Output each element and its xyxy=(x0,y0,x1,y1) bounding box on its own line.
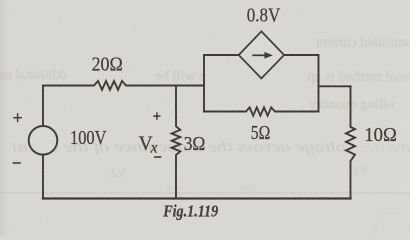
wire: loop top-left segment xyxy=(204,54,239,56)
wire: bottom horizontal xyxy=(43,197,351,199)
wire: loop bottom with resistor R3 (5 ohm) xyxy=(204,107,319,115)
resistor R4 (10 ohm) vertical xyxy=(346,86,355,198)
arrow of dependent current source I1 xyxy=(252,52,272,58)
wire: loop top-right segment xyxy=(284,54,319,56)
resistor R2 (3 ohm) vertical branch xyxy=(172,86,181,199)
wire: loop right vertical xyxy=(318,55,320,112)
wire: left vertical lower xyxy=(42,155,44,199)
wire: 10 ohm branch horizontal xyxy=(319,85,351,87)
dependent current source I1 diamond body xyxy=(239,31,284,78)
faint fold line xyxy=(0,192,410,194)
fade of bleed under 10 ohm area xyxy=(344,141,398,157)
polarity marks xyxy=(13,112,162,163)
plus sign of Vx xyxy=(153,115,160,117)
wire: dependent-source loop left vertical xyxy=(203,55,205,112)
wire: left vertical upper xyxy=(42,86,44,127)
voltage source V1 (100V) xyxy=(29,126,58,155)
plus sign of source xyxy=(13,117,22,119)
minus sign of source xyxy=(13,162,21,164)
minus sign of Vx xyxy=(154,156,161,158)
wire: top horizontal with resistor R1 (20 ohm) xyxy=(43,81,204,90)
